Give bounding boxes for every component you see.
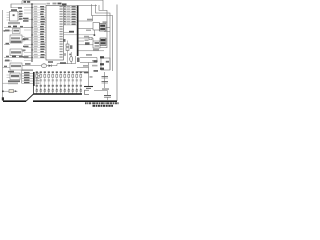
label U8 text xyxy=(11,75,19,77)
regulator U3 body xyxy=(101,58,110,70)
wire EA xyxy=(64,34,95,36)
wire U4 pins xyxy=(7,12,10,14)
crystal Y2 stack xyxy=(67,41,69,45)
resistor R5 xyxy=(5,30,10,32)
wire net L xyxy=(104,31,110,33)
wire top stub xyxy=(21,1,23,4)
wire U8 pins xyxy=(7,74,11,76)
diode D1 label xyxy=(86,54,92,56)
wire P3.0 net xyxy=(79,16,93,22)
wire U5 pins xyxy=(22,36,25,38)
resistor array RN left pins xyxy=(33,7,46,9)
logic gate U7 body xyxy=(10,63,22,70)
crystal Y1 xyxy=(22,65,53,67)
op-amp U2 body xyxy=(46,6,64,61)
capacitor C12 xyxy=(102,81,109,83)
label comb right xyxy=(84,72,89,74)
wire osc out xyxy=(77,67,89,69)
connector J3 xyxy=(85,90,90,94)
wire net C2 stub xyxy=(102,0,104,10)
wire comb left edge xyxy=(33,86,35,94)
wire J2 pins xyxy=(22,73,33,75)
wire R20 out xyxy=(106,27,110,29)
wire comb rail xyxy=(34,93,83,95)
wire net C bend xyxy=(99,5,107,48)
label title line2 xyxy=(93,105,96,107)
label U2 value xyxy=(47,3,51,5)
resistor R8 xyxy=(5,60,10,62)
wire net G xyxy=(79,40,85,42)
label U4 bottom xyxy=(8,22,20,24)
wire comb top right xyxy=(77,71,88,73)
wire net M xyxy=(100,47,107,49)
logic gate U5 body xyxy=(10,35,22,43)
wire U2 right pins xyxy=(64,7,77,9)
label X1 net xyxy=(48,61,53,63)
wire net K xyxy=(80,62,97,64)
wire bus stubs xyxy=(24,7,32,9)
diode D3 xyxy=(15,90,17,92)
wire net H xyxy=(79,44,94,46)
wire net A bend xyxy=(92,4,113,71)
wire net J xyxy=(80,58,97,63)
wire net I xyxy=(79,50,105,52)
node junction top xyxy=(31,3,32,4)
wire net F xyxy=(79,38,94,41)
connector J1 xyxy=(77,6,79,57)
wire RST xyxy=(64,32,75,34)
label U7 text xyxy=(11,65,21,67)
node corner blob xyxy=(2,97,4,100)
wire bus net xyxy=(31,4,33,62)
op-amp U8 body xyxy=(10,73,20,80)
label U5 text xyxy=(11,37,20,39)
resistor R12 row xyxy=(8,80,20,82)
comparator U9 body xyxy=(13,28,21,33)
label J1 xyxy=(77,58,80,63)
logic gate U6 body xyxy=(10,49,22,56)
resistor R20 xyxy=(100,24,107,32)
wire osc corner xyxy=(52,56,76,66)
label title line1 xyxy=(85,102,87,104)
wire net Q xyxy=(4,57,32,59)
diode D2 xyxy=(49,65,52,67)
wire right border xyxy=(116,5,118,102)
transistor Q3 xyxy=(100,68,104,70)
transistor array Q4-Q15 xyxy=(36,71,38,73)
wire chamfer diagonal xyxy=(26,94,34,101)
ground GND1 xyxy=(84,86,93,88)
relay K1 body xyxy=(93,23,100,31)
capacitor C11 xyxy=(104,72,106,88)
wire J2 feed xyxy=(21,66,23,84)
connector J2 xyxy=(33,72,35,86)
wire P3.1 net xyxy=(79,29,95,36)
capacitor C14 xyxy=(70,52,72,56)
inductor L1 xyxy=(3,90,18,92)
wire VCC top xyxy=(11,4,46,8)
wire bottom border left xyxy=(3,100,26,102)
wire U6 pins xyxy=(22,51,25,53)
node bus junctions xyxy=(31,7,32,8)
label C9 xyxy=(24,1,27,3)
wire net N xyxy=(94,91,108,96)
relay K2 body xyxy=(93,41,100,48)
transistor Q1 xyxy=(100,56,104,58)
wire IC top net xyxy=(64,5,98,7)
node border junction xyxy=(2,91,4,93)
op-amp U4 body xyxy=(10,12,19,22)
capacitor C13 xyxy=(104,95,111,97)
wire net B bend xyxy=(96,5,111,71)
label U2 pin names xyxy=(60,6,63,7)
label U4 xyxy=(11,9,17,11)
diode bridge B1 xyxy=(100,38,106,46)
wire left border xyxy=(2,10,4,101)
capacitor C10 xyxy=(62,3,67,5)
wire bottom border right xyxy=(33,100,117,102)
wire U7 pins xyxy=(3,67,11,69)
label U6 text xyxy=(11,51,21,53)
wire top bus xyxy=(22,0,103,2)
label R20 xyxy=(103,21,108,23)
transistor Q2 xyxy=(100,63,104,65)
node U4 dot xyxy=(13,14,15,16)
wire gnd drop xyxy=(88,63,90,87)
wire U4 top xyxy=(11,7,19,9)
label OSC row xyxy=(22,69,33,71)
wire net P xyxy=(4,27,32,29)
